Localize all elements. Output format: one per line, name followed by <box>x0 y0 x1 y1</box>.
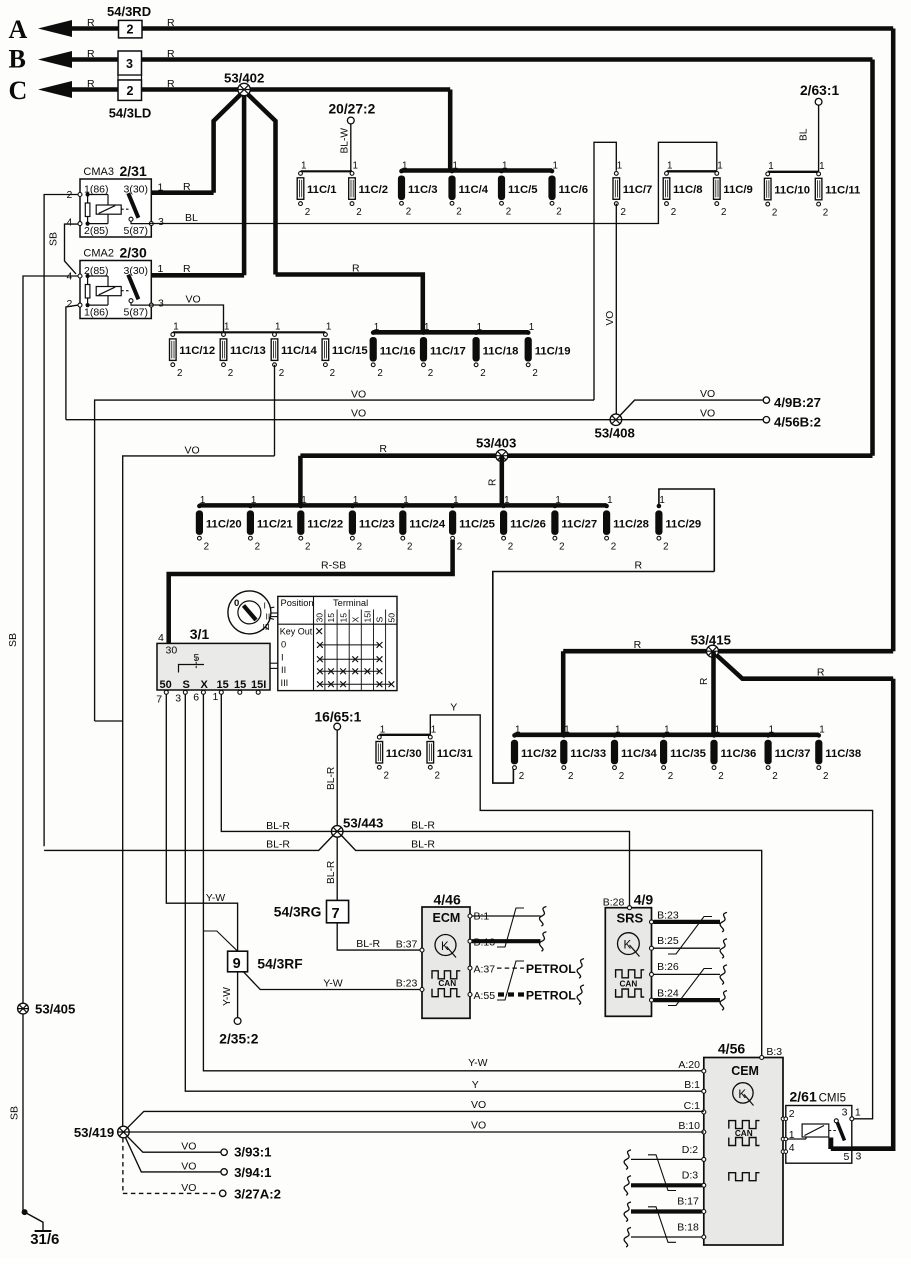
terminal 3/94:1 <box>221 1169 227 1175</box>
svg-text:11C/6: 11C/6 <box>559 184 589 196</box>
svg-text:BL-R: BL-R <box>411 820 435 832</box>
fuse 11C/11 <box>817 172 821 176</box>
fuse 11C/32 <box>512 733 517 738</box>
svg-text:1: 1 <box>158 263 164 275</box>
relay 2/61 CMI5 box <box>786 1106 852 1164</box>
wire VO 53/419 to CEM B:10 <box>129 1131 704 1133</box>
fuse 11C/10 <box>766 172 770 176</box>
svg-text:2/30: 2/30 <box>120 244 147 260</box>
wire bus R 11C/20-11C/28 <box>199 503 606 508</box>
wire Y-W connector 9 to terminal 2/35:2 <box>237 972 239 1018</box>
svg-text:BL-W: BL-W <box>339 128 350 154</box>
svg-text:11C/34: 11C/34 <box>621 748 658 760</box>
svg-text:1: 1 <box>607 495 612 506</box>
svg-text:VO: VO <box>186 294 201 306</box>
wire VO 53/408 to 4/56B:2 <box>622 419 764 421</box>
wire bus R 11C/16-11C/19 <box>373 330 528 335</box>
svg-text:31/6: 31/6 <box>30 1231 59 1248</box>
SRS pin B:23 wire <box>650 920 654 924</box>
svg-text:11C/21: 11C/21 <box>257 519 293 531</box>
SRS pin B:25 wire <box>650 946 654 950</box>
svg-text:Y: Y <box>472 1079 479 1091</box>
wire VO loop feeding 11C/7 <box>594 142 616 400</box>
svg-text:B:23: B:23 <box>396 977 418 989</box>
svg-text:B:37: B:37 <box>396 939 418 951</box>
svg-text:15: 15 <box>326 613 336 623</box>
svg-text:11C/7: 11C/7 <box>623 184 653 196</box>
wire bus R 11C/32-11C/38 <box>515 733 819 738</box>
svg-text:CAN: CAN <box>620 979 638 988</box>
relay CMA3 pin 3 (right bottom) <box>149 222 153 226</box>
svg-text:Key Out: Key Out <box>280 627 313 637</box>
wire VO from CMA2 pin 2 <box>66 305 78 420</box>
relay 2/61 switch <box>834 1119 838 1123</box>
svg-text:11C/4: 11C/4 <box>459 184 489 196</box>
svg-text:R: R <box>87 17 95 29</box>
ECM pin B:1 wire <box>468 914 472 918</box>
wire bus BL 11C/10-11C/11 <box>768 171 819 173</box>
relay CMA2 pin 3 (right bottom) <box>149 303 153 307</box>
svg-text:1: 1 <box>275 322 280 333</box>
svg-text:CMA2: CMA2 <box>83 247 114 259</box>
ignition switch 3/1 box <box>157 643 270 690</box>
fuse 11C/15 <box>324 333 328 337</box>
fuse 11C/26 <box>501 504 506 509</box>
svg-text:2: 2 <box>428 368 433 379</box>
wire BL-R connector 7 to ECM B:37 <box>337 923 422 950</box>
svg-text:11C/27: 11C/27 <box>561 519 597 531</box>
SRS B:26/B:24 harness slash <box>668 969 712 1006</box>
svg-text:6: 6 <box>193 692 199 704</box>
svg-text:11C/1: 11C/1 <box>307 184 337 196</box>
fuse 11C/5 <box>499 169 504 174</box>
CEM pin A:20 <box>702 1069 706 1073</box>
svg-text:1: 1 <box>717 161 722 172</box>
svg-text:11C/32: 11C/32 <box>521 748 557 760</box>
svg-text:2: 2 <box>457 541 462 552</box>
svg-text:11C/28: 11C/28 <box>613 519 649 531</box>
wire VO from CMA2 pin 3 to 11C/13 <box>151 305 223 332</box>
svg-text:11C/30: 11C/30 <box>386 748 422 760</box>
svg-text:11C/9: 11C/9 <box>723 184 753 196</box>
fuse 11C/12 <box>171 333 175 337</box>
svg-text:2/35:2: 2/35:2 <box>219 1032 258 1047</box>
svg-text:Y-W: Y-W <box>323 978 343 990</box>
svg-text:2: 2 <box>305 207 310 218</box>
svg-text:11C/11: 11C/11 <box>825 185 860 197</box>
svg-text:1: 1 <box>477 322 482 333</box>
svg-text:BL-R: BL-R <box>356 938 380 950</box>
wire VO 11C/14 pin 2 down <box>274 365 276 456</box>
svg-text:5(87): 5(87) <box>124 307 149 319</box>
svg-text:B:10: B:10 <box>678 1120 700 1132</box>
svg-text:11C/24: 11C/24 <box>409 519 446 531</box>
svg-text:BL: BL <box>185 212 198 224</box>
svg-text:ECM: ECM <box>433 911 461 925</box>
svg-text:11C/18: 11C/18 <box>483 345 519 357</box>
relay CMA2 coil <box>88 275 108 277</box>
svg-text:1: 1 <box>555 495 560 506</box>
svg-text:4: 4 <box>67 217 73 229</box>
svg-text:D:2: D:2 <box>682 1144 699 1156</box>
svg-text:Terminal: Terminal <box>333 598 368 608</box>
svg-text:0: 0 <box>234 598 239 609</box>
fuse 11C/2 <box>350 172 354 176</box>
svg-text:30: 30 <box>314 613 324 623</box>
wire VO joint x94.6 to x122.7 <box>95 720 123 722</box>
wire R 53/402 branch to CMA3 <box>214 93 242 193</box>
CEM pin B:1 <box>702 1089 706 1093</box>
wire R row B right drop <box>870 60 875 456</box>
svg-text:2: 2 <box>177 368 182 379</box>
svg-text:3/94:1: 3/94:1 <box>234 1165 271 1180</box>
svg-text:11C/25: 11C/25 <box>459 519 495 531</box>
CEM pin B:10 <box>702 1130 706 1134</box>
relay 2/61 pin 1 link to CEM <box>781 1137 785 1141</box>
svg-text:1: 1 <box>515 725 520 736</box>
terminal 3/93:1 <box>221 1149 227 1155</box>
relay CMA2 coil circuit <box>86 274 90 278</box>
wire R 53/402 branch to fuse row 2 <box>247 93 276 275</box>
terminal 2/35:2 <box>234 1018 241 1025</box>
svg-text:2: 2 <box>671 207 676 218</box>
fuse 11C/8 <box>665 172 669 176</box>
wire VO 53/419 to CEM C:1 <box>128 1111 704 1127</box>
ECM pin B:23 <box>420 988 424 992</box>
ECM pin A:37 wire (PETROL) <box>468 966 472 970</box>
svg-text:A: A <box>9 15 28 44</box>
fuse 11C/7 <box>614 172 618 176</box>
svg-text:CEM: CEM <box>731 1064 759 1078</box>
svg-text:R: R <box>87 78 95 90</box>
svg-text:4/46: 4/46 <box>434 892 461 908</box>
svg-text:11C/12: 11C/12 <box>179 345 215 357</box>
ignition switch 3/1 pins <box>164 690 168 694</box>
svg-text:C:1: C:1 <box>684 1100 701 1112</box>
svg-text:B:17: B:17 <box>677 1196 699 1208</box>
svg-text:B:1: B:1 <box>684 1079 700 1091</box>
svg-text:2: 2 <box>556 207 561 218</box>
wire BL-R 53/443 to CEM B:3 <box>342 836 762 1056</box>
svg-text:11C/37: 11C/37 <box>775 748 811 760</box>
connector 54/3LD <box>118 75 142 80</box>
wire VO 11C/7 loop to splice net <box>95 400 594 721</box>
connector pass-through row B <box>118 51 142 75</box>
svg-text:11C/5: 11C/5 <box>508 184 538 196</box>
svg-text:3: 3 <box>126 57 133 71</box>
svg-text:2: 2 <box>668 771 673 782</box>
fuse 11C/6 <box>550 169 555 174</box>
wire R loop 11C/29 pin 1 <box>659 489 714 572</box>
svg-text:4/56: 4/56 <box>718 1040 745 1056</box>
fuse 11C/36 <box>712 733 717 738</box>
svg-text:BL-R: BL-R <box>326 767 337 790</box>
svg-text:Y-W: Y-W <box>468 1057 488 1069</box>
svg-text:30: 30 <box>166 645 178 657</box>
wire BL-R 53/443 to SRS B:28 <box>343 831 630 905</box>
svg-text:11C/19: 11C/19 <box>535 345 571 357</box>
svg-text:R: R <box>167 48 175 60</box>
svg-text:B:25: B:25 <box>657 935 679 947</box>
svg-text:1: 1 <box>769 725 774 736</box>
ECM A:37/A:55 harness slash <box>497 961 524 1000</box>
svg-text:2: 2 <box>228 368 233 379</box>
wire R row C <box>58 87 450 92</box>
svg-text:2: 2 <box>480 368 485 379</box>
svg-text:1: 1 <box>224 322 229 333</box>
SRS pin B:28 <box>628 906 632 910</box>
svg-text:2: 2 <box>67 298 73 310</box>
relay CMA3 pin 4 (left bottom) <box>78 222 82 226</box>
svg-text:D:3: D:3 <box>682 1170 699 1182</box>
wire Y-W ignition 50 pin down <box>166 694 237 951</box>
CEM pin D:3 wire <box>702 1183 706 1187</box>
relay CMA3 coil circuit <box>86 192 90 196</box>
wire VO 53/419 to 3/93:1 <box>127 1136 221 1152</box>
wire R 53/402 branch to CMA2 <box>242 94 247 275</box>
svg-text:3/93:1: 3/93:1 <box>234 1145 271 1160</box>
svg-text:4/9B:27: 4/9B:27 <box>774 395 821 410</box>
svg-text:4/56B:2: 4/56B:2 <box>774 414 821 429</box>
wire R 53/415 to 11C/33 <box>561 651 566 735</box>
svg-text:I: I <box>264 601 266 611</box>
wire Y-W connector 9 to ECM B:23 <box>244 972 423 990</box>
svg-text:B:1: B:1 <box>474 911 490 923</box>
svg-text:2: 2 <box>823 207 828 218</box>
wire BL-R 16/65:1 to 53/443 <box>336 730 338 826</box>
relay CMA3 pin 2 (left top) <box>78 193 82 197</box>
svg-text:1: 1 <box>403 495 408 506</box>
svg-text:1: 1 <box>502 160 507 171</box>
svg-text:A:55: A:55 <box>474 990 496 1002</box>
fuse 11C/20 <box>197 504 202 509</box>
svg-text:2: 2 <box>506 207 511 218</box>
svg-text:BL-R: BL-R <box>266 839 290 851</box>
wire R 11C/29 to 11C/32 pin 2 <box>493 572 715 784</box>
fuse 11C/19 <box>526 330 531 335</box>
svg-text:BL: BL <box>799 128 810 141</box>
svg-text:3/27A:2: 3/27A:2 <box>234 1186 281 1201</box>
svg-text:1: 1 <box>768 161 773 172</box>
svg-text:C: C <box>9 76 28 105</box>
SRS B:23/B:25 harness slash <box>668 917 712 955</box>
svg-text:2: 2 <box>663 541 668 552</box>
wire R drop to fuse row 1 <box>448 90 453 171</box>
svg-text:SRS: SRS <box>617 911 644 926</box>
svg-text:16/65:1: 16/65:1 <box>315 710 362 725</box>
svg-text:1: 1 <box>301 161 306 172</box>
svg-text:A:37: A:37 <box>474 964 496 976</box>
svg-text:1: 1 <box>529 322 534 333</box>
svg-text:SB: SB <box>7 633 19 647</box>
svg-text:VO: VO <box>185 444 200 456</box>
svg-text:VO: VO <box>351 389 366 401</box>
svg-text:CMA3: CMA3 <box>83 166 114 178</box>
svg-text:1: 1 <box>353 161 358 172</box>
svg-text:1: 1 <box>424 322 429 333</box>
svg-text:CAN: CAN <box>438 979 456 988</box>
svg-text:11C/3: 11C/3 <box>408 184 438 196</box>
wire SB from CMA3 pin 2 <box>44 195 78 847</box>
wire VO 53/419 to 3/27A:2 (dashed) <box>122 1138 124 1193</box>
svg-text:SB: SB <box>48 232 60 246</box>
svg-text:2: 2 <box>789 1108 795 1120</box>
svg-text:VO: VO <box>471 1099 486 1111</box>
relay CMA2 switch contact <box>121 290 128 292</box>
svg-text:VO: VO <box>471 1120 486 1132</box>
svg-text:III: III <box>263 622 270 632</box>
svg-text:1: 1 <box>819 725 824 736</box>
wire BL-R 53/443 down to connector 7 <box>336 837 338 900</box>
svg-text:CMI5: CMI5 <box>819 1093 846 1105</box>
ignition switch position table <box>278 596 397 690</box>
svg-text:11C/15: 11C/15 <box>332 345 368 357</box>
svg-text:A:20: A:20 <box>678 1059 700 1071</box>
svg-text:11C/2: 11C/2 <box>359 184 389 196</box>
ECM CAN symbol <box>432 971 460 979</box>
fuse 11C/17 <box>421 330 426 335</box>
fuse 11C/1 <box>299 172 303 176</box>
svg-text:2: 2 <box>305 541 310 552</box>
svg-text:Y: Y <box>450 702 457 714</box>
svg-text:R: R <box>183 181 191 193</box>
svg-text:2: 2 <box>508 541 513 552</box>
relay CMA2 2/30 <box>80 261 151 319</box>
svg-text:Y-W: Y-W <box>206 892 226 904</box>
relay CMA3 switch contact <box>121 208 128 210</box>
wire BL-R ignition 15 pin down to 53/443 <box>221 694 331 831</box>
svg-text:BL-R: BL-R <box>326 861 337 884</box>
fuse 11C/38 <box>817 733 822 738</box>
svg-text:X: X <box>201 679 209 691</box>
svg-text:11C/38: 11C/38 <box>825 748 861 760</box>
wire R row A <box>58 26 893 31</box>
svg-text:1: 1 <box>353 495 358 506</box>
svg-text:2: 2 <box>127 23 134 37</box>
svg-text:11C/22: 11C/22 <box>307 519 343 531</box>
fuse 11C/24 <box>401 504 406 509</box>
svg-text:53/443: 53/443 <box>343 815 383 830</box>
svg-text:50: 50 <box>160 679 172 691</box>
terminal 3/27A:2 <box>220 1190 226 1196</box>
svg-text:2: 2 <box>406 207 411 218</box>
svg-text:15I: 15I <box>363 611 373 623</box>
wire Y-W ignition X pin down to CEM A:20 <box>203 694 703 1071</box>
wire R relay 2/61 pin 5 output <box>831 1146 893 1151</box>
wire BL 2/63:1 to 11C/11 <box>818 105 820 172</box>
svg-text:1: 1 <box>213 691 219 703</box>
svg-text:VO: VO <box>605 311 616 326</box>
fuse 11C/37 <box>766 733 771 738</box>
fuse 11C/31 <box>428 735 432 739</box>
svg-text:Y-W: Y-W <box>222 987 233 1006</box>
svg-text:2: 2 <box>519 771 524 782</box>
svg-text:7: 7 <box>332 906 340 922</box>
svg-text:II: II <box>266 612 271 622</box>
svg-text:PETROL: PETROL <box>526 989 576 1003</box>
fuse 11C/23 <box>350 504 355 509</box>
wire R row B <box>58 57 873 62</box>
svg-text:2: 2 <box>204 541 209 552</box>
wire R 53/415 drop to 11C/36 <box>711 651 716 735</box>
svg-text:1: 1 <box>200 495 205 506</box>
svg-text:2: 2 <box>384 771 389 782</box>
svg-text:2: 2 <box>377 368 382 379</box>
svg-text:1: 1 <box>664 725 669 736</box>
svg-text:2: 2 <box>619 771 624 782</box>
fuse 11C/13 <box>222 333 226 337</box>
SRS K symbol <box>618 933 640 955</box>
svg-text:1: 1 <box>326 322 331 333</box>
svg-text:B:24: B:24 <box>657 988 679 1000</box>
svg-text:1: 1 <box>504 495 509 506</box>
svg-text:11C/23: 11C/23 <box>359 519 395 531</box>
relay 2/61 coil <box>788 1138 806 1140</box>
wire bus 11C/1-11C/2 <box>301 170 353 172</box>
wire bus Y 11C/30-11C/31 <box>379 734 430 736</box>
splice 53/405 <box>18 1003 29 1014</box>
wire VO 53/408 to 4/9B:27 <box>620 400 763 415</box>
svg-text:1: 1 <box>158 182 164 194</box>
svg-text:3: 3 <box>158 298 164 310</box>
CEM pin B:17 wire <box>702 1210 706 1214</box>
terminal 4/9B:27 <box>763 397 769 403</box>
svg-text:2: 2 <box>621 207 626 218</box>
svg-text:R: R <box>635 559 643 571</box>
ECU SRS 4/9 box <box>605 908 651 1017</box>
svg-text:15: 15 <box>234 679 246 691</box>
fuse 11C/16 <box>371 330 376 335</box>
svg-text:B:26: B:26 <box>657 961 679 973</box>
svg-text:1: 1 <box>431 724 436 735</box>
relay CMA2 resistor <box>85 285 90 299</box>
ECM pin B:37 <box>420 948 424 952</box>
svg-text:1: 1 <box>374 322 379 333</box>
svg-text:0: 0 <box>281 640 286 650</box>
relay 2/61 pin 4 link to CEM <box>781 1150 785 1154</box>
wire BL-W 20/27:2 to 11C/2 <box>350 124 352 171</box>
relay 2/61 pin 2 link to CEM <box>781 1117 785 1121</box>
wire Y 11C/31 to 2/61 pin 1 <box>430 715 872 1119</box>
svg-text:2: 2 <box>559 541 564 552</box>
ignition key symbol <box>228 591 271 634</box>
svg-text:R: R <box>87 48 95 60</box>
ECM pin A:55 wire (PETROL) <box>468 993 472 997</box>
ECM K symbol <box>435 935 456 956</box>
svg-text:B:13: B:13 <box>474 937 496 949</box>
wire bus R 11C/3-11C/6 <box>402 168 553 173</box>
svg-text:2: 2 <box>823 771 828 782</box>
svg-text:R: R <box>379 443 387 455</box>
table row marks <box>316 628 322 634</box>
svg-text:50: 50 <box>387 613 397 623</box>
fuse 11C/35 <box>661 733 666 738</box>
fuse 11C/28 <box>604 504 609 509</box>
wire R right edge down to 2/61 pin 5 <box>852 679 893 1149</box>
svg-text:1: 1 <box>453 495 458 506</box>
svg-text:S: S <box>375 617 385 623</box>
CEM B:17/B:18 harness slash <box>648 1207 676 1243</box>
CEM D:2/D:3 harness slash <box>648 1155 676 1191</box>
svg-text:2: 2 <box>718 771 723 782</box>
fuse 11C/29 <box>657 504 662 509</box>
CEM pin B:18 wire <box>702 1235 706 1239</box>
svg-text:CAN: CAN <box>735 1129 753 1138</box>
svg-text:1: 1 <box>617 161 622 172</box>
svg-text:R-SB: R-SB <box>321 560 346 572</box>
svg-text:53/419: 53/419 <box>74 1125 114 1140</box>
wire bus VO 11C/12-11C/15 <box>173 331 326 333</box>
